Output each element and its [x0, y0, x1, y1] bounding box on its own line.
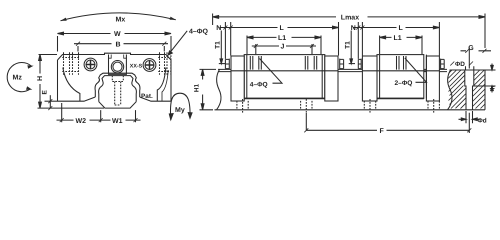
rail top single line in section zone: [450, 69, 486, 71]
hatch left zone: [448, 70, 485, 109]
grease fitting circle: [111, 60, 123, 72]
H1 dimension: [200, 69, 217, 109]
svg-text:F: F: [380, 128, 385, 135]
svg-text:N: N: [216, 25, 221, 32]
svg-text:Pat.: Pat.: [141, 93, 153, 100]
rail top double line: [218, 69, 447, 71]
N + T1 block2: [358, 22, 362, 59]
grease nipple left block1: [225, 59, 229, 70]
svg-text:My: My: [175, 107, 185, 114]
grease fitting recess: [109, 55, 127, 75]
grease nipple right block2: [441, 59, 445, 70]
svg-text:Mz: Mz: [13, 74, 23, 81]
W dimension: [58, 36, 172, 52]
rail hidden bolt hole (dashed): [112, 76, 123, 105]
end cap screw right: [143, 59, 156, 72]
2 tapped holes block2: [397, 56, 407, 70]
svg-text:G: G: [468, 45, 474, 52]
svg-text:W: W: [114, 31, 121, 38]
right break squiggle: [448, 70, 453, 110]
svg-text:L1: L1: [394, 35, 402, 42]
L1 block2: [380, 36, 422, 55]
svg-text:Mx: Mx: [116, 17, 126, 24]
L block2: [406, 27, 440, 29]
carriage left edge and bottom: [58, 60, 96, 101]
hidden tapped holes right (dashed): [158, 52, 171, 74]
svg-text:L: L: [280, 25, 285, 32]
svg-text:Φd: Φd: [478, 117, 487, 124]
svg-text:4–ΦQ: 4–ΦQ: [250, 82, 268, 89]
phi d dimension: [466, 111, 473, 123]
svg-text:XX-S: XX-S: [130, 63, 143, 69]
svg-text:W2: W2: [76, 118, 87, 125]
Mx arc: [61, 13, 176, 21]
leader 2-phiQ block2: [405, 58, 427, 82]
svg-text:2–ΦQ: 2–ΦQ: [395, 80, 413, 87]
4 tapped holes block1: [250, 56, 316, 70]
E dimension: [45, 100, 58, 102]
svg-text:ΦD: ΦD: [455, 61, 465, 68]
svg-text:W1: W1: [112, 118, 123, 125]
grease nipple left block2: [358, 59, 361, 70]
L1 block1: [247, 36, 321, 55]
block lip contour around rail: [95, 73, 140, 97]
svg-text:Lmax: Lmax: [341, 15, 359, 22]
svg-text:B: B: [116, 41, 121, 48]
torn section curve bottom-left: [63, 68, 80, 102]
rail right end: [484, 70, 486, 110]
end cap screw left: [84, 58, 97, 71]
svg-text:T1: T1: [215, 41, 222, 49]
svg-text:4–ΦQ: 4–ΦQ: [189, 29, 209, 36]
h dimension: [474, 70, 496, 86]
carriage block outline: [58, 53, 172, 101]
L block1: [247, 27, 339, 29]
Lmax: [213, 14, 485, 49]
right side inner profile: [157, 68, 166, 102]
rail bottom: [215, 109, 486, 111]
leader 4-phiQ block1: [260, 59, 283, 84]
svg-text:N: N: [351, 25, 356, 32]
counterbore hole outline: [465, 70, 474, 110]
W2 W1 dimensions: [62, 103, 136, 122]
svg-text:T1: T1: [344, 41, 351, 49]
rail hole hidden lines under blocks (dashed): [237, 99, 440, 113]
svg-text:J: J: [281, 44, 285, 51]
G dimension: [468, 48, 470, 69]
My arch arrow: [170, 93, 190, 120]
svg-text:E: E: [42, 90, 49, 95]
svg-text:H1: H1: [194, 83, 201, 92]
H dimension: [38, 55, 105, 109]
J block1: [256, 44, 312, 54]
svg-text:L1: L1: [278, 35, 286, 42]
phiD dimension: [466, 66, 474, 69]
rail bottom flange chamfers below block: [99, 102, 136, 108]
F dimension: [306, 113, 469, 133]
svg-text:h: h: [490, 85, 497, 89]
Mz curved arrow: [7, 63, 31, 92]
grease nipple right block1: [340, 59, 344, 70]
svg-text:L: L: [399, 25, 404, 32]
rail cross-section profile: [99, 76, 137, 102]
4-phiQ leader (front view): [168, 31, 187, 55]
B dimension: [78, 46, 164, 52]
left break squiggle: [217, 69, 222, 109]
N + T1 block1: [225, 22, 230, 59]
svg-text:H: H: [37, 76, 44, 81]
hidden tapped holes left (dashed): [62, 52, 79, 74]
